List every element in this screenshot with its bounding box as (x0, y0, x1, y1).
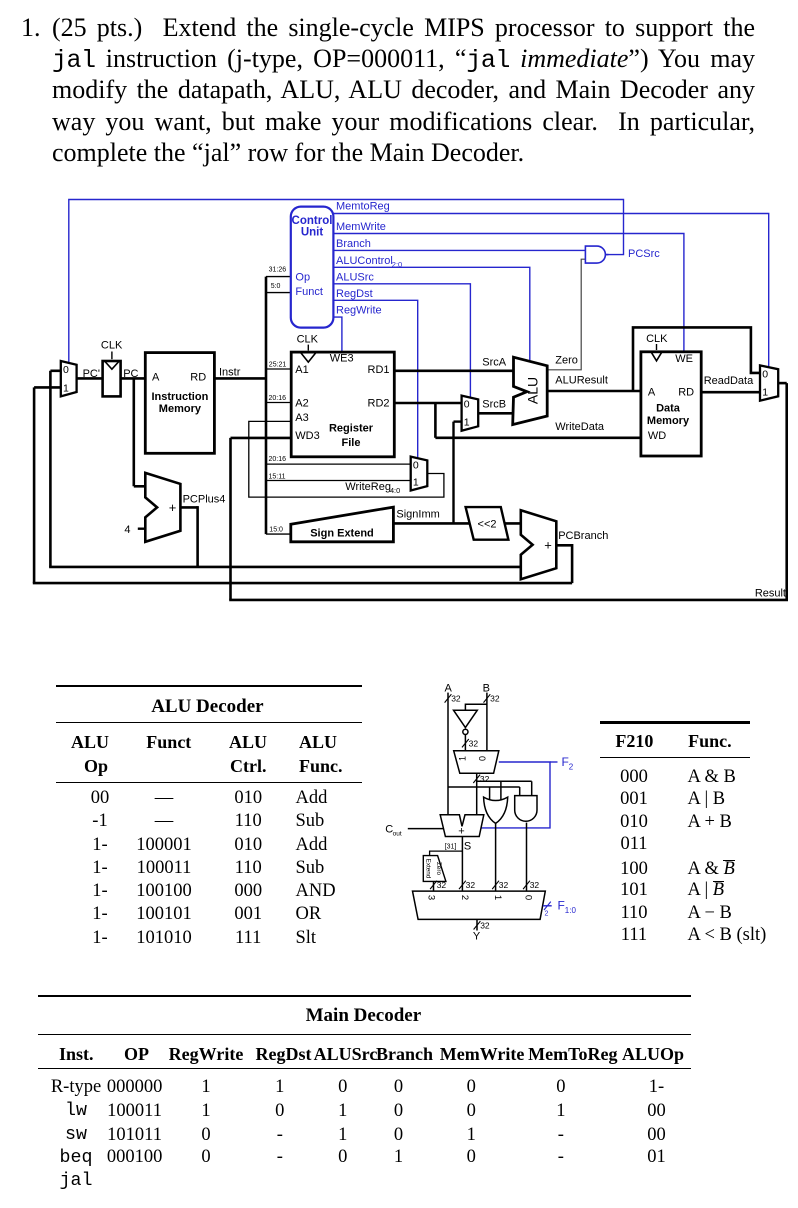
wire shifter output to branch adder (505, 522, 521, 525)
svg-text:WriteReg: WriteReg (345, 481, 391, 493)
label S (464, 841, 471, 853)
inverter (NOT gate) for B (454, 710, 478, 734)
label F1:0 (blue) (558, 899, 577, 916)
svg-text:Register: Register (329, 423, 374, 435)
svg-text:CLK: CLK (297, 334, 319, 346)
wire MemtoReg (blue) to Result mux select (333, 214, 768, 368)
CLK label for PC register (101, 339, 123, 359)
svg-text:0: 0 (478, 756, 488, 761)
wire ALUSrc (blue) to SrcB mux select (333, 284, 470, 398)
svg-text:Branch: Branch (336, 238, 371, 250)
wire Y output (474, 919, 490, 930)
svg-text:WE: WE (675, 353, 693, 365)
svg-text:WE3: WE3 (330, 353, 354, 365)
adder PCBranch (521, 510, 557, 579)
svg-text:File: File (342, 437, 361, 449)
svg-text:32: 32 (466, 880, 476, 890)
label WriteData (555, 421, 605, 433)
control unit (blue rounded box) (291, 207, 334, 328)
svg-text:Instr: Instr (219, 367, 241, 379)
sign extend unit (291, 507, 394, 542)
label SrcB (482, 398, 506, 410)
label PCBranch (558, 530, 608, 542)
label MemWrite (blue) (336, 221, 386, 233)
svg-text:RD: RD (678, 387, 694, 399)
svg-text:1: 1 (63, 382, 69, 394)
CLK label for data memory (646, 333, 668, 350)
wire SignImm from Sign Extend to shifter (393, 522, 470, 525)
svg-text:SignImm: SignImm (396, 509, 439, 521)
wire B to inverter (465, 704, 487, 710)
svg-text:5:0: 5:0 (271, 283, 281, 290)
svg-text:PCPlus4: PCPlus4 (183, 494, 226, 506)
svg-text:PCBranch: PCBranch (558, 530, 608, 542)
svg-text:Op: Op (295, 272, 310, 284)
svg-text:ALUControl: ALUControl (336, 255, 393, 267)
label Y (473, 930, 481, 942)
mux B / notB (2:1) (454, 751, 499, 774)
svg-text:CLK: CLK (101, 339, 123, 351)
wire PCPlus4: adder output, bottom rail, up into PC mux input 0 and branch adder (49, 371, 521, 567)
wire SignImm branch up to SrcB mux input 1 (454, 422, 462, 524)
wire PC: PC register to Instruction Memory, branch down to PCPlus4 adder (121, 378, 146, 486)
wire ALUControl2:0 (blue) to ALU select (333, 267, 529, 361)
label Branch (blue) (336, 238, 371, 250)
table F210 functions (600, 721, 750, 723)
wire RD1 / SrcA to ALU (394, 369, 513, 372)
table ALU Decoder (56, 685, 362, 687)
OR gate (A | B) pointing down (484, 797, 508, 823)
svg-text:[31]: [31] (445, 843, 457, 850)
svg-text:32: 32 (451, 694, 461, 704)
svg-text:RD2: RD2 (368, 398, 390, 410)
wire Bmux output down to adder (473, 773, 489, 815)
bit label 31:26 (269, 266, 287, 273)
svg-text:Sign Extend: Sign Extend (310, 527, 374, 539)
svg-text:4:0: 4:0 (390, 486, 400, 495)
wire F1:0 (blue) mux select (543, 902, 552, 918)
wire A branch to AND/OR gates (448, 787, 520, 802)
register PC with clock wedge (103, 361, 121, 396)
svg-text:32: 32 (530, 880, 540, 890)
label F2 (blue) (562, 755, 574, 772)
bit label 15:0 (269, 526, 283, 533)
wire MemWrite (blue) to Data Memory WE (333, 234, 684, 352)
label SrcA (482, 356, 507, 368)
svg-text:ALUResult: ALUResult (555, 375, 608, 387)
table Main Decoder (38, 995, 692, 997)
label PC-prime (83, 368, 100, 380)
svg-text:A: A (152, 372, 160, 384)
svg-text:PC': PC' (83, 368, 100, 380)
svg-text:Zero: Zero (435, 862, 442, 875)
wire RD2 to SrcB mux input 0 (394, 402, 461, 405)
wire OR output to result mux input 1 (492, 823, 508, 893)
svg-text:A1: A1 (295, 364, 308, 376)
svg-text:PCSrc: PCSrc (628, 248, 660, 260)
wire AND output to result mux input 0 (523, 823, 539, 893)
svg-text:32: 32 (499, 880, 509, 890)
svg-text:Result: Result (755, 588, 786, 600)
svg-text:CLK: CLK (646, 333, 668, 345)
svg-text:F: F (558, 899, 565, 913)
wire Instr bus from Instruction Memory with vertical distribution bus (214, 277, 266, 534)
wire WriteData: RD2 branch down to Data Memory WD (435, 403, 641, 438)
wire 15:11 tap to WriteReg mux input 1 (266, 480, 411, 482)
svg-text:32: 32 (469, 738, 479, 748)
wire 20:16 to A2 (266, 402, 291, 404)
wire Funct field 5:0 into Control Unit (266, 292, 291, 294)
svg-text:<<2: <<2 (478, 518, 497, 530)
svg-text:RD1: RD1 (368, 364, 390, 376)
AND gate for PCSrc (blue) (585, 246, 608, 263)
label 4 (124, 524, 130, 536)
CLK label for register file (297, 334, 319, 351)
label RegDst (blue) (336, 288, 373, 300)
svg-text:A2: A2 (295, 398, 308, 410)
wire zero-extend output to result mux input 3 (430, 880, 446, 893)
svg-text:Memory: Memory (159, 403, 202, 415)
label Instr (219, 367, 241, 379)
data memory box (641, 352, 701, 456)
svg-text:1: 1 (464, 417, 470, 429)
svg-text:WD: WD (648, 430, 666, 442)
wire 20:16 tap to WriteReg mux input 0 (266, 463, 411, 465)
svg-text:ALUSrc: ALUSrc (336, 271, 374, 283)
bit label 25:21 (269, 362, 287, 369)
label ALUSrc (blue) (336, 271, 374, 283)
wire PCSrc (blue): AND output up over the top and down to PC mux select (69, 200, 624, 363)
svg-text:0: 0 (464, 399, 470, 411)
label PCSrc (blue) (628, 248, 660, 260)
svg-text:2: 2 (545, 910, 549, 917)
label SignImm (396, 509, 439, 521)
svg-text:+: + (544, 538, 552, 553)
svg-text:SrcA: SrcA (482, 356, 507, 368)
svg-text:WD3: WD3 (295, 430, 319, 442)
svg-text:ReadData: ReadData (704, 375, 754, 387)
svg-text:ALU: ALU (525, 377, 541, 404)
svg-text:20:16: 20:16 (269, 395, 287, 402)
label RegWrite (blue) (336, 305, 382, 317)
svg-text:Extend: Extend (424, 859, 431, 879)
mux WriteReg (0=20:16, 1=15:11) (411, 457, 428, 491)
mux SrcB (0=RD2, 1=SignImm) (462, 396, 479, 431)
svg-text:Y: Y (473, 930, 481, 942)
wire constant 4 into PCPlus4 adder (138, 528, 146, 530)
wire S (sum) down to result mux (459, 837, 475, 894)
svg-text:S: S (464, 841, 471, 853)
wire 15:0 to Sign Extend (266, 533, 291, 535)
svg-text:32: 32 (490, 694, 500, 704)
label ALUResult (555, 375, 608, 387)
svg-text:Unit: Unit (301, 226, 324, 238)
svg-text:2: 2 (459, 895, 470, 900)
label Zero (555, 355, 578, 367)
label MemtoReg (blue) (336, 201, 390, 213)
svg-text:RD: RD (190, 372, 206, 384)
wire Cout from adder (408, 828, 444, 830)
label Result (755, 588, 786, 600)
wire Bmux branch to AND/OR gates (477, 781, 532, 802)
adder PCPlus4 (145, 473, 180, 542)
svg-text:2: 2 (569, 763, 574, 772)
svg-text:Memory: Memory (647, 415, 690, 427)
svg-text:SrcB: SrcB (482, 398, 506, 410)
svg-text:15:11: 15:11 (269, 474, 286, 481)
label [31] (445, 843, 457, 850)
svg-text:F: F (562, 755, 569, 769)
svg-text:out: out (393, 831, 402, 838)
svg-text:32: 32 (480, 774, 490, 784)
zero extend unit (423, 856, 446, 882)
label WriteReg 4:0 (345, 481, 400, 495)
label ReadData (704, 375, 754, 387)
svg-text:32: 32 (480, 921, 490, 931)
svg-text:RegDst: RegDst (336, 288, 373, 300)
shifter <<2 (466, 507, 509, 540)
mux PC source (0=PCPlus4, 1=PCBranch) (61, 361, 77, 396)
problem statement paragraph (21, 12, 41, 43)
svg-text:MemWrite: MemWrite (336, 221, 386, 233)
wire Branch (blue) to AND gate input (333, 249, 585, 251)
svg-text:0: 0 (523, 895, 534, 900)
svg-text:1: 1 (492, 895, 503, 900)
svg-text:Instruction: Instruction (151, 391, 208, 403)
wire RegWrite (blue) to Register File WE3 (333, 317, 342, 352)
bit label 20:16 (WriteReg mux) (269, 456, 287, 463)
svg-text:1: 1 (457, 756, 467, 761)
svg-text:0: 0 (413, 460, 419, 472)
wire 25:21 to A1 (266, 368, 291, 370)
svg-text:25:21: 25:21 (269, 362, 287, 369)
svg-text:0: 0 (63, 364, 69, 376)
mux Result (0=ALUResult, 1=ReadData) (760, 365, 778, 400)
svg-text:+: + (458, 826, 464, 838)
node A input of ALU detail (445, 682, 461, 814)
wire S[31] tap to zero extend (430, 851, 463, 856)
svg-text:Data: Data (656, 402, 681, 414)
svg-text:A3: A3 (295, 412, 308, 424)
svg-text:20:16: 20:16 (269, 456, 287, 463)
svg-text:Funct: Funct (295, 286, 323, 298)
bit label 15:11 (269, 474, 286, 481)
svg-text:0: 0 (762, 368, 768, 380)
bit label 5:0 (271, 283, 281, 290)
ALU (main datapath) (513, 357, 548, 424)
instruction memory box (145, 353, 214, 454)
wire ReadData to Result mux input 1 (701, 391, 760, 394)
wire PCBranch: branch adder output, down, bottom rail, up into PC mux input 1 (33, 387, 572, 583)
svg-text:1: 1 (762, 387, 768, 399)
svg-text:RegWrite: RegWrite (336, 305, 382, 317)
wire PC-prime: PC mux output to PC register (77, 377, 103, 380)
register file box (291, 352, 394, 457)
wire F2 (blue) mux select and carry-in (481, 762, 558, 828)
label Cout (385, 823, 402, 837)
wire WriteReg mux output looping to A3 (249, 421, 444, 497)
svg-text:Zero: Zero (555, 355, 578, 367)
mux 4:1 function select (413, 891, 546, 919)
svg-text:15:0: 15:0 (269, 526, 283, 533)
wire Zero from ALU to AND gate (547, 259, 585, 370)
wire Result: result mux output, down right side, bottom rail, up to WD3 (229, 383, 788, 600)
svg-text:31:26: 31:26 (269, 266, 287, 273)
AND gate (A & B) pointing down (515, 796, 537, 822)
svg-text:A: A (648, 387, 656, 399)
wire SrcB mux output to ALU (478, 412, 513, 415)
svg-text:+: + (169, 500, 177, 515)
label ALUControl 2:0 (blue) (336, 255, 402, 269)
svg-text:PC: PC (123, 368, 138, 380)
wire ALUResult to Data Memory A, with branch over the top to Result mux input 0 (547, 327, 760, 391)
svg-text:3: 3 (425, 895, 436, 900)
svg-text:4: 4 (124, 524, 130, 536)
svg-text:Control: Control (292, 215, 333, 227)
label PCPlus4 (183, 494, 226, 506)
wire Op field 31:26 into Control Unit (266, 276, 291, 278)
node B input of ALU detail (483, 682, 500, 750)
adder (A + B) of ALU detail (440, 815, 484, 838)
svg-text:1: 1 (413, 477, 419, 489)
svg-text:WriteData: WriteData (555, 421, 605, 433)
wire inverter output to B mux (462, 735, 478, 751)
svg-text:MemtoReg: MemtoReg (336, 201, 390, 213)
svg-text:2:0: 2:0 (392, 260, 402, 269)
svg-text:1:0: 1:0 (565, 906, 577, 915)
wire RegDst (blue) to WriteReg mux select (333, 300, 417, 458)
label PC (123, 368, 138, 380)
bit label 20:16 (A2) (269, 395, 287, 402)
svg-text:32: 32 (437, 880, 447, 890)
